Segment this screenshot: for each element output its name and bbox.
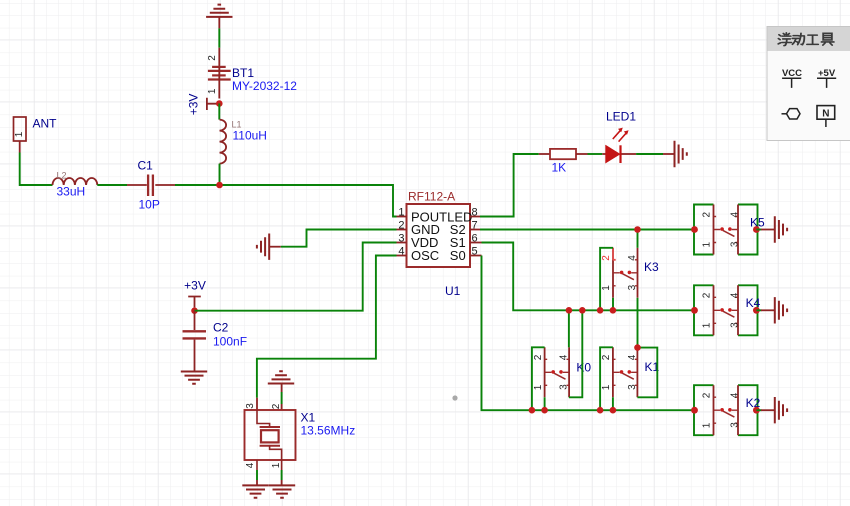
switch K5 — [694, 205, 765, 255]
svg-text:2: 2 — [702, 211, 713, 217]
svg-text:LED1: LED1 — [606, 110, 636, 124]
wire K1 pin2 hook to S0 — [600, 347, 613, 410]
op-amp U1 RF112-A body — [407, 190, 471, 298]
svg-text:33uH: 33uH — [57, 185, 86, 199]
svg-text:4: 4 — [398, 245, 404, 257]
svg-text:ANT: ANT — [33, 117, 58, 131]
junction +3V/C2/VDD — [191, 307, 198, 314]
svg-text:+3V: +3V — [186, 94, 200, 116]
wire OSC to X1 — [257, 256, 397, 398]
pin 8 — [470, 206, 480, 218]
wire U1 pin8 to resistor — [480, 154, 539, 217]
wire L2 to C1 — [97, 184, 127, 186]
wire K0 pin4 up to S1 — [568, 310, 570, 347]
svg-text:2: 2 — [601, 255, 612, 261]
wire X1 pin1 to ground — [281, 470, 283, 480]
svg-text:N: N — [822, 108, 829, 119]
wire LED to ground — [636, 153, 663, 155]
wire S0 row (pin5 to K2) — [482, 256, 695, 411]
switch K2 — [694, 385, 761, 435]
wire resistor to LED — [588, 153, 603, 155]
wire K1 pin1 down — [612, 397, 614, 410]
pin 7 S2 — [450, 219, 480, 237]
junction K2 right — [753, 407, 760, 414]
svg-text:1: 1 — [702, 241, 713, 247]
LED LED1 — [602, 110, 636, 164]
wire S2 row (pin7 to K5) — [480, 229, 694, 231]
svg-text:100nF: 100nF — [213, 335, 247, 349]
svg-text:+3V: +3V — [184, 279, 206, 293]
svg-text:+5V: +5V — [818, 68, 836, 79]
ground (K5) — [775, 216, 787, 242]
svg-text:1: 1 — [14, 131, 25, 137]
svg-text:2: 2 — [601, 354, 612, 360]
svg-text:4: 4 — [729, 392, 740, 398]
svg-text:3: 3 — [627, 284, 638, 290]
svg-text:1: 1 — [601, 384, 612, 390]
ground (above X1 pin 2) — [268, 371, 294, 392]
switch K1 — [601, 347, 659, 397]
capacitor C1 — [127, 159, 175, 212]
svg-text:U1: U1 — [445, 284, 461, 298]
floating tool panel — [767, 27, 850, 141]
junction K2 left — [691, 407, 698, 414]
svg-text:VCC: VCC — [782, 68, 802, 79]
wire K0 pin2 hook to S0 — [532, 347, 545, 410]
wire K0 pin3 hook to S1 — [569, 310, 582, 397]
pin 5 S0 — [450, 245, 482, 263]
wire L1 to C1 row — [219, 164, 221, 185]
svg-text:7: 7 — [472, 219, 478, 231]
svg-text:3: 3 — [627, 384, 638, 390]
pin 6 S1 — [450, 232, 482, 250]
svg-text:3: 3 — [245, 403, 256, 409]
svg-text:1: 1 — [601, 285, 612, 291]
svg-text:3: 3 — [729, 422, 740, 428]
wire K3 pin1 down — [612, 298, 614, 311]
wire K5 to ground — [756, 229, 774, 231]
svg-text:5: 5 — [472, 245, 478, 257]
svg-text:4: 4 — [627, 255, 638, 261]
inductor L1 — [220, 120, 267, 164]
crystal X1 13.56MHz — [245, 398, 356, 470]
svg-text:13.56MHz: 13.56MHz — [301, 424, 356, 438]
svg-text:4: 4 — [729, 211, 740, 217]
switch K3 — [601, 248, 659, 298]
ground (K4) — [775, 297, 787, 323]
junction K4 right — [753, 307, 760, 314]
svg-text:K3: K3 — [644, 260, 659, 274]
svg-text:3: 3 — [729, 322, 740, 328]
net flag +3V (top) — [186, 94, 219, 116]
netlabel icon (N box) — [817, 106, 835, 127]
wire K1 right loop pins 4-3 — [637, 348, 657, 398]
ground (C2) — [181, 372, 207, 384]
junction K4 left — [691, 307, 698, 314]
net flag +3V (C2) — [184, 279, 206, 308]
capacitor C2 — [183, 311, 248, 372]
svg-text:1: 1 — [271, 462, 282, 468]
wire C1 to U1 pin1 — [175, 185, 397, 217]
wire X1 pin4 to ground — [256, 470, 258, 480]
svg-text:1: 1 — [207, 88, 218, 94]
ground (top, above BT1) — [206, 5, 232, 29]
svg-text:2: 2 — [702, 392, 713, 398]
svg-text:RF112-A: RF112-A — [408, 190, 455, 204]
pin 4 OSC — [397, 245, 440, 263]
svg-text:1K: 1K — [552, 161, 567, 175]
ground (LED1) — [663, 141, 687, 167]
svg-text:4: 4 — [627, 354, 638, 360]
svg-text:4: 4 — [245, 462, 256, 468]
switch K4 — [694, 285, 761, 335]
svg-text:1: 1 — [398, 206, 404, 218]
svg-text:6: 6 — [472, 232, 478, 244]
wire VDD to +3V junction — [195, 243, 397, 311]
junction S0 row dots — [529, 407, 617, 414]
junction K5 left — [691, 226, 698, 233]
svg-text:K0: K0 — [576, 361, 591, 375]
svg-text:110uH: 110uH — [233, 129, 267, 143]
junction S1 row dots — [566, 307, 617, 314]
panel title 浮动工具 (drawn strokes) — [778, 33, 834, 46]
svg-text:L2: L2 — [57, 171, 67, 181]
svg-text:1: 1 — [533, 384, 544, 390]
net flag icon +5V — [817, 68, 836, 88]
wire ANT to L2 — [20, 153, 53, 186]
wire K2 to ground — [756, 409, 774, 411]
battery BT1 MY-2032-12 — [207, 48, 297, 99]
wire K3 pin4 up to S2 — [637, 230, 639, 248]
svg-text:4: 4 — [559, 354, 570, 360]
junction L1/C1 row — [216, 182, 223, 189]
wire S1 row (pin6 to K4) — [482, 243, 695, 311]
junction BT1/+3V/L1 — [216, 100, 223, 107]
wire K4 to ground — [756, 309, 774, 311]
wire GND pin to ground — [281, 230, 397, 247]
svg-text:2: 2 — [702, 292, 713, 298]
svg-text:X1: X1 — [301, 411, 316, 425]
junction K5 right — [753, 226, 760, 233]
wire K3 pin2 hook — [600, 248, 613, 310]
svg-text:2: 2 — [398, 219, 404, 231]
svg-text:MY-2032-12: MY-2032-12 — [232, 79, 297, 93]
wire junction to L1 — [218, 104, 220, 120]
svg-text:4: 4 — [729, 292, 740, 298]
net flag icon VCC — [782, 68, 802, 88]
ground (K2) — [775, 397, 787, 423]
ground (X1 pin4) — [242, 480, 268, 498]
ground (U1 GND pin) — [257, 234, 281, 260]
svg-text:1: 1 — [702, 322, 713, 328]
svg-text:C1: C1 — [138, 159, 154, 173]
wire ground to BT1 — [218, 28, 220, 47]
wire X1 pin2 to ground — [281, 392, 283, 404]
svg-text:10P: 10P — [139, 198, 160, 212]
svg-text:OSC: OSC — [411, 248, 439, 263]
svg-text:2: 2 — [271, 403, 282, 409]
resistor 1K — [539, 149, 588, 175]
pin 1 POUTLED — [397, 206, 473, 224]
inductor L2 — [53, 171, 98, 199]
ground (X1 pin1) — [269, 480, 295, 498]
svg-text:BT1: BT1 — [232, 66, 254, 80]
svg-text:8: 8 — [472, 206, 478, 218]
net port icon (hexagon) — [782, 109, 801, 119]
svg-text:3: 3 — [398, 232, 404, 244]
svg-text:2: 2 — [533, 354, 544, 360]
svg-text:3: 3 — [559, 384, 570, 390]
junction S2/K3 — [634, 226, 641, 233]
switch K0 — [533, 347, 592, 397]
svg-text:2: 2 — [207, 55, 218, 61]
wire K0 pin1 down — [544, 397, 546, 410]
svg-text:C2: C2 — [213, 321, 229, 335]
svg-text:3: 3 — [729, 241, 740, 247]
wire K3 pin3 down to K1 pin4 — [637, 298, 639, 348]
junction K3/K1 pin4 — [634, 344, 641, 351]
svg-text:S0: S0 — [450, 248, 466, 263]
origin marker dot — [452, 395, 457, 400]
svg-text:1: 1 — [702, 422, 713, 428]
connector ANT — [14, 117, 58, 153]
pin 3 VDD — [397, 232, 439, 250]
pin 2 GND — [397, 219, 440, 237]
